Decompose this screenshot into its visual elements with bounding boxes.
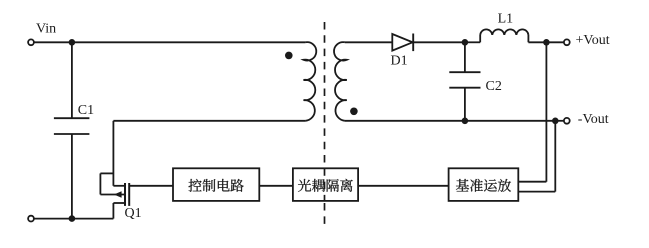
svg-text:-Vout: -Vout bbox=[578, 112, 609, 127]
svg-text:Vin: Vin bbox=[36, 21, 56, 36]
svg-text:C2: C2 bbox=[486, 79, 502, 94]
svg-text:L1: L1 bbox=[498, 12, 514, 27]
svg-text:D1: D1 bbox=[391, 53, 408, 68]
svg-text:+Vout: +Vout bbox=[576, 33, 610, 48]
svg-text:C1: C1 bbox=[78, 103, 94, 118]
svg-text:Q1: Q1 bbox=[125, 206, 142, 221]
